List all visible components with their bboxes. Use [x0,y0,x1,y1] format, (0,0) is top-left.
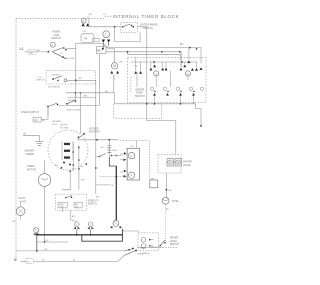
svg-text:FRAME: FRAME [26,153,35,156]
wire bus x95.8 down [95,80,97,194]
MS contacts [99,156,101,158]
svg-text:LS: LS [60,53,63,55]
bottom cluster contacts [124,249,136,256]
svg-text:BK: BK [23,134,26,136]
svg-text:SWITCH: SWITCH [36,80,45,82]
wire contacts down to node [103,42,108,49]
svg-text:MOTOR: MOTOR [27,168,36,171]
verticals row2 to bus y103.8 [155,96,194,104]
svg-text:BR: BR [84,96,87,98]
bus x153.7 [148,141,150,181]
fuse [162,197,169,204]
svg-text:BU: BU [180,43,184,46]
svg-text:LID: LID [38,77,42,79]
svg-text:C8: C8 [130,146,134,148]
cabinet ground symbol [35,142,43,146]
circled terminal 1 [75,222,80,227]
timer line switch circle [50,42,55,47]
contact pair below T [102,40,111,43]
cluster out right [137,246,163,248]
svg-text:TUB: TUB [60,206,65,208]
svg-text:BU: BU [98,49,102,52]
dashed segment right of y140 [120,139,148,141]
wire y120.6 to valve [147,121,176,155]
wire y139.8 [78,139,119,141]
svg-text:BO 30M: BO 30M [60,127,68,129]
svg-text:L1: L1 [20,47,24,51]
svg-text:BU: BU [105,91,108,93]
second contact down [53,52,63,57]
wire lid feed vertical x75.8 [75,43,77,97]
branch y242 [37,241,68,243]
wire B y51.8 [106,52,181,67]
svg-text:BOX: BOX [52,124,57,126]
vertical x75.4 [74,93,76,102]
svg-text:POSITION: POSITION [89,132,100,134]
wires below speed switch [63,208,77,222]
svg-text:2M: 2M [101,147,104,149]
svg-text:W: W [73,259,76,261]
wire y48.8 to right [109,48,115,50]
svg-text:BK: BK [89,14,92,16]
svg-text:BK: BK [120,62,123,64]
svg-text:2: 2 [90,223,92,227]
svg-text:SW OPENS: SW OPENS [48,87,60,89]
svg-text:+: + [52,43,54,47]
speed switch contact top [65,197,67,199]
vertical x88.9 beside P [88,17,90,27]
svg-text:MS-1: MS-1 [113,150,119,152]
junction on x95.8 bus [95,167,97,169]
svg-text:AGITATE: AGITATE [89,128,99,131]
timer line switch contact [52,47,67,52]
lid switch dashed box [46,71,96,85]
contact triangles left of box [124,152,127,177]
leader to label [86,16,90,19]
svg-text:(L): (L) [96,199,99,201]
water level switch dashed box [138,233,159,251]
contacts below M [110,71,119,74]
svg-text:1M: 1M [34,120,37,122]
svg-text:BK: BK [30,52,33,54]
speed switch dashed box [56,194,87,210]
svg-text:FUSE: FUSE [172,200,179,203]
svg-text:T: T [105,33,107,37]
wire L1 input [25,51,49,53]
svg-text:SWITCH: SWITCH [143,26,153,30]
svg-text:VALVE: VALVE [183,164,191,167]
svg-text:BU: BU [55,165,58,167]
svg-text:BK: BK [168,190,171,192]
fuse down dotted [165,204,167,243]
lid open terminal [64,79,67,82]
svg-text:5: 5 [187,72,189,76]
svg-text:BU: BU [45,240,48,242]
svg-text:SPEED: SPEED [88,200,96,202]
svg-text:MOTOR: MOTOR [66,58,75,60]
tall box with two circled symbols [127,148,139,180]
svg-text:SWITCH: SWITCH [51,36,61,40]
circled terminal 2 [88,222,93,227]
AGI box [74,202,82,208]
thermostat circle T [103,31,110,38]
svg-text:EXTRA RINSE: EXTRA RINSE [141,22,158,26]
wire P to extra rinse [89,26,121,28]
svg-text:BK: BK [96,197,99,199]
lid switch contact [52,78,54,80]
circled 5 water temp [185,71,190,76]
svg-text:INTERNAL TIMER BLOCK: INTERNAL TIMER BLOCK [113,14,180,19]
svg-text:4: 4 [130,174,132,178]
dashed extension lower left [114,103,162,119]
svg-text:BU: BU [27,261,30,263]
wire C y55 [128,52,181,60]
svg-text:BK: BK [42,120,45,122]
bus y103.8 [114,104,201,125]
connector box left [33,117,41,122]
thick vertical x116.3 [115,166,117,220]
circle M top of water temp [111,63,117,69]
row1 contact pairs water temp [134,60,202,74]
extra rinse contact [122,26,124,28]
svg-text:SWITCH: SWITCH [135,95,145,98]
svg-text:CHECK SWITCH: CHECK SWITCH [21,112,39,114]
wire top y43.4 [76,42,103,44]
motor windings [64,143,70,159]
junction L1 node [48,51,50,53]
row2 contacts with circled letters [150,87,203,92]
svg-text:M: M [111,185,113,187]
wire circle M up [114,49,116,63]
end mark x201 [200,125,202,127]
wire y97.2 [68,96,96,98]
svg-text:TEMP: TEMP [136,92,143,95]
line y250.9 [16,250,125,252]
motor dashed circle [48,130,88,170]
terminal P circle top [81,18,86,23]
SPIN box [58,202,67,208]
svg-text:1M P/E: 1M P/E [60,125,68,127]
svg-text:1M 30M: 1M 30M [52,75,60,77]
junction on P wire [114,26,116,28]
timer block rounded box [81,34,94,43]
vertical x36.8 down [36,233,38,251]
feeds from circles to contacts [136,58,185,71]
svg-text:1: 1 [155,72,157,76]
valve coils [167,159,173,166]
svg-text:BK: BK [81,180,84,182]
wire M contacts down, left at 92.8 [66,75,114,93]
motor terminals [61,167,63,169]
svg-text:P4: P4 [135,66,138,68]
internal timer block dashed border left [15,18,17,261]
connector plug at L1 [28,50,36,55]
wire cluster right to x99.4 [67,54,99,106]
dashed y176.6 left of box [100,176,127,178]
dark bus from above right: x109.3 down jog to x116.3 [108,140,110,157]
wire A y47.6 [106,48,201,64]
small connector box top middle [97,46,107,53]
vertical from A at 189.8 [188,48,190,60]
MS module coil bars [107,146,111,153]
wire timer switch to x75.8 [66,48,76,50]
contact pair below P [82,23,90,26]
wire y62 inside block [131,62,197,68]
svg-text:N: N [14,258,17,262]
svg-text:P: P [82,19,84,23]
svg-text:SWITCH: SWITCH [88,203,97,205]
overload circle bottom [113,220,119,226]
water valve dashed box [158,155,181,174]
svg-text:W: W [42,259,45,261]
junction dots top right [161,51,163,53]
circled 1 water temp [154,71,159,76]
water level contact outside [160,240,166,247]
extra rinse switch dashed box [121,22,138,32]
svg-text:BK: BK [72,216,75,218]
water temp switch dashed enclosure [128,58,207,103]
svg-text:TM: TM [84,38,87,41]
internal timer block dashed border top [16,17,104,19]
svg-text:30M CLOSES: 30M CLOSES [67,109,81,111]
thick bus y237.8 [37,234,123,236]
wire down from junction [115,27,141,42]
svg-text:P4: P4 [83,31,86,33]
svg-text:W/BN: W/BN [138,253,144,255]
circle V left [34,228,39,233]
svg-text:2: 2 [130,154,132,158]
dark junction [102,48,104,50]
valve to fuse wire [165,173,167,197]
svg-text:BK(L): BK(L) [140,248,146,250]
wire y184.9 [96,184,110,186]
tab box [93,38,99,41]
wire lid out [67,79,96,81]
vertical x80.3 agitate feed [79,93,81,134]
svg-text:SWITCH: SWITCH [170,243,180,246]
wire slant to y48.8 [103,43,109,48]
svg-text:LIGHT: LIGHT [19,200,27,203]
wire overload right to water level box [122,229,139,231]
svg-text:BK: BK [166,209,169,211]
svg-text:CLU: CLU [75,206,80,208]
svg-text:BK: BK [79,78,82,80]
wire cluster down to plug [47,107,49,118]
links row1 to row2 [137,71,188,87]
svg-text:BK: BK [13,221,16,223]
svg-text:M: M [113,64,116,68]
bottom loop [82,229,123,241]
small box below bus [150,180,158,188]
agitate contact [83,133,85,135]
wire out of extra rinse [137,27,146,121]
svg-text:1: 1 [76,223,78,227]
motor wires down [62,143,79,190]
svg-text:RD: RD [81,166,84,168]
